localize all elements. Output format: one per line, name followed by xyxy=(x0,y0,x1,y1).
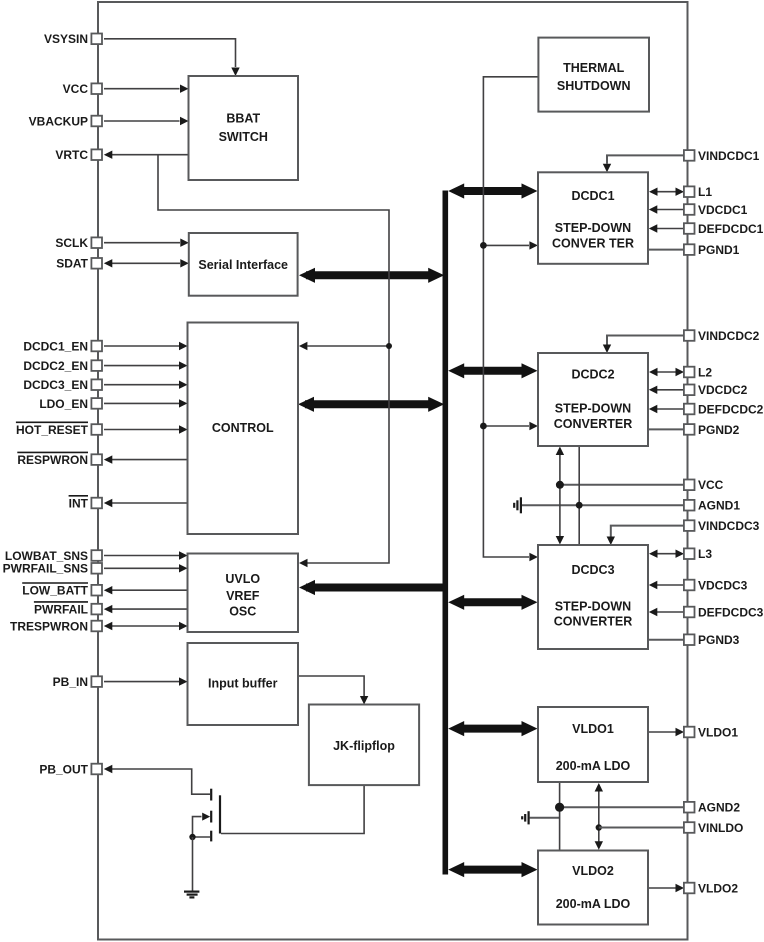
svg-text:VDCDC1: VDCDC1 xyxy=(698,203,748,217)
svg-text:DEFDCDC3: DEFDCDC3 xyxy=(698,605,764,619)
svg-text:VINDCDC1: VINDCDC1 xyxy=(698,149,760,163)
wire VCC to node xyxy=(560,484,684,486)
bus arrow Serial Interface xyxy=(299,268,444,283)
svg-text:SHUTDOWN: SHUTDOWN xyxy=(557,79,631,93)
transistor Q1 body arrow and source wire xyxy=(193,813,211,837)
wire VLDO2 output xyxy=(648,884,684,892)
svg-text:CONTROL: CONTROL xyxy=(212,421,274,435)
node junction thermal at DCDC1 xyxy=(480,242,487,249)
pin DEFDCDC3 xyxy=(684,605,764,619)
svg-text:DEFDCDC1: DEFDCDC1 xyxy=(698,222,764,236)
wire PGND1 xyxy=(648,249,684,251)
wire L3 bidirectional xyxy=(649,550,684,558)
wire PB_IN to Input buffer xyxy=(104,677,188,685)
bus arrow VLDO1 xyxy=(448,721,537,736)
svg-text:BBAT: BBAT xyxy=(226,112,260,126)
svg-text:VLDO1: VLDO1 xyxy=(698,725,738,739)
wire VLDO1 to VLDO2 bidirectional xyxy=(595,783,603,850)
pin L1 xyxy=(684,185,712,199)
wire DCDC3_EN to CONTROL xyxy=(104,381,188,389)
svg-text:STEP-DOWN: STEP-DOWN xyxy=(555,600,631,614)
pin PGND3 xyxy=(684,633,740,647)
ground AGND2 xyxy=(522,811,528,824)
wire VLDO1 to VLDO2 plain xyxy=(559,782,561,851)
pin VLDO2 xyxy=(684,881,738,895)
node junction VRTC net at CONTROL branch xyxy=(386,343,392,349)
wire PGND3 xyxy=(648,639,684,641)
wire VRTC branch to CONTROL and UVLO xyxy=(158,155,389,568)
pin VDCDC1 xyxy=(684,203,748,217)
wire PGND2 xyxy=(648,428,684,430)
wire VDCDC1 into DCDC1 xyxy=(649,205,684,213)
wire thermal branch to DCDC1 xyxy=(483,241,538,249)
svg-text:DCDC3: DCDC3 xyxy=(571,563,614,577)
bus arrow UVLO xyxy=(299,580,445,595)
block op DCDC3 xyxy=(538,545,648,649)
svg-text:DEFDCDC2: DEFDCDC2 xyxy=(698,402,764,416)
bus arrow CONTROL xyxy=(298,397,444,412)
wire DCDC2 to DCDC3 plain xyxy=(578,446,580,545)
wire VLDO1 output xyxy=(648,728,684,736)
svg-text:TRESPWRON: TRESPWRON xyxy=(10,619,88,633)
ground AGND1 xyxy=(514,497,521,513)
bus arrow VLDO2 xyxy=(448,862,537,877)
wire INT from CONTROL xyxy=(104,499,188,507)
svg-text:Serial Interface: Serial Interface xyxy=(198,258,288,272)
svg-text:PGND1: PGND1 xyxy=(698,243,740,257)
svg-text:VBACKUP: VBACKUP xyxy=(29,114,88,128)
block VLDO1 xyxy=(538,707,648,782)
svg-text:STEP-DOWN: STEP-DOWN xyxy=(555,402,631,416)
pin SDAT xyxy=(56,257,102,271)
svg-text:PB_OUT: PB_OUT xyxy=(39,762,88,776)
block THERMAL SHUTDOWN xyxy=(538,38,649,112)
transistor Q1 gate bar xyxy=(219,795,221,833)
wire Input buffer to JK-flipflop xyxy=(298,676,368,705)
bus main vertical xyxy=(442,191,448,875)
wire PWRFAIL from UVLO xyxy=(104,605,188,613)
pin VDCDC2 xyxy=(684,383,748,397)
svg-text:SCLK: SCLK xyxy=(55,236,88,250)
svg-text:VLDO2: VLDO2 xyxy=(698,881,738,895)
pin L3 xyxy=(684,547,712,561)
wire LOW_BATT from UVLO xyxy=(104,586,188,594)
svg-text:L1: L1 xyxy=(698,185,712,199)
svg-text:PWRFAIL: PWRFAIL xyxy=(34,603,88,617)
wire HOT_RESET to CONTROL xyxy=(104,425,188,433)
wire SCLK to Serial Interface xyxy=(104,239,189,247)
pin VINDCDC1 xyxy=(684,149,760,163)
wire VRTC from BBAT SWITCH xyxy=(104,151,189,159)
svg-text:HOT_RESET: HOT_RESET xyxy=(16,423,89,437)
svg-text:CONVER TER: CONVER TER xyxy=(552,237,634,251)
wire THERMAL SHUTDOWN distribution xyxy=(483,77,538,561)
svg-text:AGND1: AGND1 xyxy=(698,499,740,513)
pin LDO_EN xyxy=(39,397,102,411)
block VLDO2 xyxy=(538,851,648,925)
svg-text:VLDO2: VLDO2 xyxy=(572,864,614,878)
wire ground AGND2 stub xyxy=(530,817,560,819)
svg-text:STEP-DOWN: STEP-DOWN xyxy=(555,221,631,235)
pin PWRFAIL_SNS xyxy=(3,562,102,576)
wire thermal branch to DCDC2 xyxy=(483,422,538,430)
pin DCDC3_EN xyxy=(23,378,102,392)
node junction VINLDO line xyxy=(596,824,602,830)
svg-text:Input buffer: Input buffer xyxy=(208,677,278,691)
svg-text:PGND2: PGND2 xyxy=(698,423,740,437)
pin AGND1 xyxy=(684,499,740,513)
node junction transistor source xyxy=(189,834,195,840)
pin PWRFAIL xyxy=(34,602,102,617)
wire DEFDCDC1 into DCDC1 xyxy=(649,224,684,232)
svg-text:INT: INT xyxy=(69,496,89,510)
pin VCC xyxy=(63,82,102,96)
transistor Q1 channel bars xyxy=(210,789,212,842)
node junction VCC line xyxy=(556,481,564,489)
pin VRTC xyxy=(55,148,102,162)
svg-text:DCDC2: DCDC2 xyxy=(571,368,614,382)
block JK-flipflop U2 xyxy=(309,705,419,786)
svg-text:OSC: OSC xyxy=(229,605,256,619)
block Serial Interface xyxy=(189,233,298,296)
pin AGND2 xyxy=(684,801,740,815)
svg-text:L3: L3 xyxy=(698,547,712,561)
wire AGND1 to ground xyxy=(522,504,684,506)
svg-text:SWITCH: SWITCH xyxy=(219,130,268,144)
node junction AGND1 line xyxy=(576,502,583,509)
pin VINDCDC2 xyxy=(684,329,760,343)
node junction AGND2 line xyxy=(555,803,564,812)
svg-text:CONVERTER: CONVERTER xyxy=(554,417,632,431)
wire VINDCDC1 to DCDC1 xyxy=(603,155,684,172)
bus arrow DCDC1 xyxy=(448,183,537,198)
pin PGND2 xyxy=(684,423,740,437)
pin PB_IN xyxy=(53,675,102,689)
block BBAT SWITCH xyxy=(189,76,299,180)
pin LOWBAT_SNS xyxy=(5,549,102,563)
ground main xyxy=(184,892,199,898)
wire VINDCDC2 to DCDC2 xyxy=(603,336,684,354)
block op DCDC2 xyxy=(538,353,648,446)
wire AGND2 to node xyxy=(560,806,684,808)
block CONTROL xyxy=(188,323,299,535)
bus arrow DCDC2 xyxy=(448,363,537,378)
svg-text:LOW_BATT: LOW_BATT xyxy=(22,584,88,598)
pin DCDC1_EN xyxy=(23,339,102,353)
wire PB_OUT from transistor drain xyxy=(104,765,210,794)
block op DCDC1 xyxy=(538,172,648,263)
svg-text:DCDC2_EN: DCDC2_EN xyxy=(23,359,88,373)
pin RESPWRON xyxy=(17,452,102,467)
pin LOW_BATT xyxy=(22,583,102,598)
wire VDCDC2 into DCDC2 xyxy=(649,386,684,394)
wire L2 bidirectional xyxy=(649,368,684,376)
svg-text:DCDC3_EN: DCDC3_EN xyxy=(23,378,88,392)
svg-text:VRTC: VRTC xyxy=(55,148,88,162)
svg-text:VINDCDC3: VINDCDC3 xyxy=(698,519,760,533)
svg-text:PWRFAIL_SNS: PWRFAIL_SNS xyxy=(3,562,88,576)
svg-text:VINDCDC2: VINDCDC2 xyxy=(698,329,760,343)
chip outline border xyxy=(98,2,688,940)
wire VSYSIN to BBAT SWITCH xyxy=(104,39,240,76)
wire transistor source to ground xyxy=(192,837,194,891)
wire SDAT bidirectional to Serial Interface xyxy=(104,259,189,267)
svg-text:JK-flipflop: JK-flipflop xyxy=(333,739,395,753)
pin VLDO1 xyxy=(684,725,738,739)
svg-text:VINLDO: VINLDO xyxy=(698,821,743,835)
wire VDCDC3 into DCDC3 xyxy=(649,581,684,589)
wire DCDC2 to DCDC3 bidirectional left xyxy=(556,447,564,545)
wire DEFDCDC2 into DCDC2 xyxy=(649,405,684,413)
svg-text:THERMAL: THERMAL xyxy=(563,61,624,75)
wire DCDC1_EN to CONTROL xyxy=(104,342,188,350)
pin TRESPWRON xyxy=(10,619,102,633)
svg-text:PB_IN: PB_IN xyxy=(53,675,88,689)
svg-text:DCDC1: DCDC1 xyxy=(571,189,614,203)
pin VINDCDC3 xyxy=(684,519,760,533)
svg-text:200-mA LDO: 200-mA LDO xyxy=(556,759,631,773)
wire DCDC2_EN to CONTROL xyxy=(104,361,188,369)
wire branch into CONTROL xyxy=(299,342,389,350)
wire DEFDCDC3 into DCDC3 xyxy=(649,608,684,616)
pin VINLDO xyxy=(684,821,743,835)
svg-text:PGND3: PGND3 xyxy=(698,633,740,647)
pin PGND1 xyxy=(684,243,740,257)
pin INT xyxy=(69,496,102,511)
svg-text:VCC: VCC xyxy=(63,82,89,96)
block UVLO VREF OSC xyxy=(188,554,299,633)
pin HOT_RESET xyxy=(16,422,102,437)
wire JK-flipflop to transistor gate xyxy=(221,785,364,833)
svg-text:VDCDC3: VDCDC3 xyxy=(698,578,748,592)
svg-text:DCDC1_EN: DCDC1_EN xyxy=(23,339,88,353)
svg-text:VSYSIN: VSYSIN xyxy=(44,32,88,46)
wire LDO_EN to CONTROL xyxy=(104,399,188,407)
wire VINDCDC3 to DCDC3 xyxy=(607,526,684,545)
wire VCC to BBAT SWITCH xyxy=(104,85,189,93)
svg-text:200-mA LDO: 200-mA LDO xyxy=(556,897,631,911)
node junction thermal at DCDC2 xyxy=(480,423,487,430)
svg-text:L2: L2 xyxy=(698,365,712,379)
svg-text:RESPWRON: RESPWRON xyxy=(17,453,88,467)
pin DEFDCDC2 xyxy=(684,402,764,416)
block Input buffer xyxy=(188,643,299,725)
pin VDCDC3 xyxy=(684,578,748,592)
pin SCLK xyxy=(55,236,102,250)
svg-text:UVLO: UVLO xyxy=(225,572,260,586)
wire PWRFAIL_SNS to UVLO xyxy=(104,564,188,572)
wire VBACKUP to BBAT SWITCH xyxy=(104,117,189,125)
svg-text:VLDO1: VLDO1 xyxy=(572,722,614,736)
svg-text:LDO_EN: LDO_EN xyxy=(39,397,88,411)
wire TRESPWRON bidirectional to UVLO xyxy=(104,622,188,630)
bus arrow DCDC3 xyxy=(448,595,537,610)
wire RESPWRON from CONTROL xyxy=(104,455,188,463)
svg-text:VDCDC2: VDCDC2 xyxy=(698,383,748,397)
pin VCC right xyxy=(684,478,724,492)
svg-text:CONVERTER: CONVERTER xyxy=(554,615,632,629)
wire L1 bidirectional xyxy=(649,188,684,196)
wire LOWBAT_SNS to UVLO xyxy=(104,551,188,559)
pin VSYSIN xyxy=(44,32,102,46)
svg-text:VREF: VREF xyxy=(226,589,260,603)
pin DCDC2_EN xyxy=(23,359,102,373)
svg-text:AGND2: AGND2 xyxy=(698,801,740,815)
wire VINLDO to node xyxy=(599,827,684,829)
svg-text:VCC: VCC xyxy=(698,478,724,492)
pin PB_OUT xyxy=(39,762,102,776)
svg-text:SDAT: SDAT xyxy=(56,257,88,271)
pin VBACKUP xyxy=(29,114,102,128)
pin DEFDCDC1 xyxy=(684,222,764,236)
pin L2 xyxy=(684,365,712,379)
